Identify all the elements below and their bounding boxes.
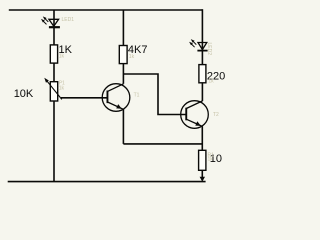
svg-text:1k: 1k	[59, 53, 65, 59]
svg-text:1k: 1k	[208, 156, 214, 162]
svg-text:1k: 1k	[208, 79, 214, 85]
potentiometer P1 10K	[14, 78, 65, 101]
LED LED1	[41, 16, 74, 28]
svg-text:10K: 10K	[14, 88, 34, 100]
resistor R1 1K	[50, 44, 72, 63]
svg-text:LED2: LED2	[206, 43, 212, 56]
resistor R2 4K7	[119, 44, 147, 64]
wire left drop to LED1	[53, 10, 55, 45]
wire right rail drop to LED2	[201, 9, 203, 64]
transistor T1	[102, 84, 139, 112]
wire R2 to T1 collector	[122, 64, 124, 84]
svg-text:1k: 1k	[129, 54, 135, 60]
wire T1 emitter down	[122, 109, 124, 144]
wire top supply rail	[9, 9, 203, 11]
resistor R3 220	[199, 65, 225, 85]
wire T2 emitter down to R4	[201, 126, 203, 150]
wire P1 to bottom rail	[53, 101, 55, 182]
wire bottom rail	[8, 181, 206, 183]
LED LED2	[189, 39, 212, 55]
wire emitter junction horizontal	[123, 143, 202, 145]
wire P1 wiper to T1 base	[61, 97, 107, 99]
svg-text:T2: T2	[213, 112, 219, 118]
svg-text:T1: T1	[134, 92, 140, 98]
wire R4 to bottom arrow	[201, 170, 203, 179]
resistor R4 10	[199, 150, 222, 170]
wire R3 to T2 collector	[201, 83, 203, 101]
wire R1 to P1	[53, 63, 55, 82]
wire branch R2-bottom to T2 base	[123, 74, 185, 115]
svg-text:LED1: LED1	[62, 17, 75, 23]
arrow to ground rail	[200, 177, 205, 182]
wire middle drop to R2	[122, 10, 124, 46]
svg-text:1k: 1k	[59, 85, 65, 91]
transistor T2	[181, 101, 219, 129]
